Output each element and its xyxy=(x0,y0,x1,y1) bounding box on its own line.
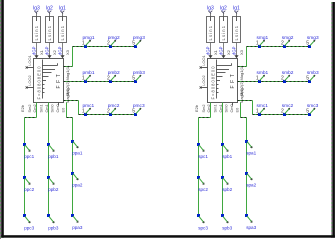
svg-text:dGP: dGP xyxy=(205,46,210,55)
svg-text:pmg1: pmg1 xyxy=(83,35,95,41)
svg-text:dGP: dGP xyxy=(44,46,49,55)
svg-text:ppc2: ppc2 xyxy=(24,187,34,192)
svg-text:1: 1 xyxy=(82,109,85,115)
node ppa2 xyxy=(71,172,83,188)
frame left border xyxy=(1,0,4,238)
svg-text:spb2: spb2 xyxy=(222,187,232,192)
node pmg3 xyxy=(132,35,145,48)
FFT block U1 xyxy=(208,59,238,103)
wire col2 xyxy=(48,103,50,217)
node ppc3 xyxy=(23,214,35,231)
svg-text:5: 5 xyxy=(132,76,135,82)
svg-text:2: 2 xyxy=(107,76,110,82)
node smg3 xyxy=(306,35,319,48)
svg-text:Sm0: Sm0 xyxy=(224,104,229,113)
svg-text:E0: E0 xyxy=(60,107,65,113)
svg-text:spc3: spc3 xyxy=(198,226,208,231)
frame right dotted guide xyxy=(331,2,333,238)
node pmc1 xyxy=(82,103,95,116)
svg-text:1: 1 xyxy=(82,76,85,82)
svg-text:5: 5 xyxy=(306,109,309,115)
node smb3 xyxy=(306,70,319,83)
pin LOO1 xyxy=(200,55,208,68)
node pmg1 xyxy=(82,35,95,48)
svg-text:lg3: lg3 xyxy=(33,6,40,12)
wire lg2 to FFT pin X2 xyxy=(44,43,57,59)
svg-text:pmc1: pmc1 xyxy=(83,103,95,109)
frame left dotted guide xyxy=(0,0,2,239)
svg-text:spa2: spa2 xyxy=(246,183,256,188)
node spc1 xyxy=(197,143,208,159)
svg-text:smb2: smb2 xyxy=(282,70,294,76)
svg-text:Cm0: Cm0 xyxy=(55,103,60,112)
svg-text:smb3: smb3 xyxy=(307,70,319,76)
bottom pins Sm/Cm xyxy=(201,103,239,113)
FFT block U1 xyxy=(34,59,64,103)
node smc2 xyxy=(281,103,293,116)
svg-text:Sm1: Sm1 xyxy=(213,105,218,113)
svg-text:E0: E0 xyxy=(234,107,239,113)
svg-text:Cm0: Cm0 xyxy=(229,103,234,112)
svg-text:lg1: lg1 xyxy=(233,6,240,12)
svg-text:FFT: FFT xyxy=(230,72,236,89)
node pmc3 xyxy=(132,103,145,116)
node spb2 xyxy=(221,176,233,192)
wire lg1 to FFT pin X3 xyxy=(57,43,70,59)
bottom pins Sm/Cm xyxy=(27,103,65,113)
svg-text:LOO2: LOO2 xyxy=(201,75,206,85)
source lg1 xyxy=(233,6,241,43)
svg-text:1: 1 xyxy=(256,41,259,47)
node pmg2 xyxy=(107,35,120,48)
wire lg3 to FFT pin X1 xyxy=(31,43,44,59)
wire lg2 to FFT pin X2 xyxy=(218,43,231,59)
node smb1 xyxy=(256,70,269,83)
wire col2 xyxy=(222,103,224,217)
svg-text:dGP: dGP xyxy=(57,46,62,55)
node ppa1 xyxy=(71,140,83,156)
svg-text:ppb2: ppb2 xyxy=(48,187,59,192)
svg-text:pmg2: pmg2 xyxy=(108,35,120,41)
svg-text:pmg3: pmg3 xyxy=(133,35,145,41)
svg-text:Lsin1: Lsin1 xyxy=(60,25,65,41)
pin LOO2 xyxy=(26,75,34,88)
wire col3 xyxy=(241,103,247,216)
svg-text:smc1: smc1 xyxy=(257,103,269,109)
wire col3 xyxy=(67,103,73,216)
svg-text:1: 1 xyxy=(82,41,85,47)
svg-text:lg1: lg1 xyxy=(59,6,66,12)
pin labels Mag1 Mag2 Mag3 xyxy=(65,65,70,103)
frame right border xyxy=(332,2,335,238)
node spc3 xyxy=(197,214,208,231)
svg-text:1: 1 xyxy=(256,109,259,115)
svg-text:E2b: E2b xyxy=(20,104,25,112)
svg-text:dGP: dGP xyxy=(231,46,236,55)
svg-text:spc1: spc1 xyxy=(198,154,208,159)
svg-text:F=80808E00: F=80808E00 xyxy=(37,65,42,99)
node ppb3 xyxy=(47,214,59,231)
wire Mag3 to row3 xyxy=(64,101,136,115)
svg-text:Sm0: Sm0 xyxy=(50,104,55,113)
svg-text:Lsin1: Lsin1 xyxy=(47,25,52,41)
svg-text:Lsin1: Lsin1 xyxy=(208,25,213,41)
svg-text:smc2: smc2 xyxy=(282,103,294,109)
svg-text:dGP: dGP xyxy=(218,46,223,55)
node pmc2 xyxy=(107,103,120,116)
node ppc2 xyxy=(23,176,35,192)
svg-text:pmb3: pmb3 xyxy=(133,70,145,76)
source lg2 xyxy=(46,6,54,43)
svg-text:5: 5 xyxy=(306,76,309,82)
svg-text:2: 2 xyxy=(281,109,284,115)
node spb1 xyxy=(221,143,233,159)
svg-text:pmb1: pmb1 xyxy=(83,70,95,76)
svg-text:Lsin1: Lsin1 xyxy=(221,25,226,41)
svg-text:ppa2: ppa2 xyxy=(72,183,83,188)
label E2b xyxy=(194,104,199,112)
svg-text:lg2: lg2 xyxy=(220,6,227,12)
svg-text:Mag1(1): Mag1(1) xyxy=(239,65,244,81)
svg-text:F=80808E00: F=80808E00 xyxy=(211,65,216,99)
svg-text:pmc2: pmc2 xyxy=(108,103,120,109)
svg-text:smc3: smc3 xyxy=(307,103,319,109)
node smb2 xyxy=(281,70,294,83)
svg-text:FFT: FFT xyxy=(56,72,62,89)
svg-text:5: 5 xyxy=(306,41,309,47)
svg-text:spc2: spc2 xyxy=(198,187,208,192)
pin labels Mag1 Mag2 Mag3 xyxy=(239,65,244,103)
svg-text:X3: X3 xyxy=(239,49,244,55)
node smg2 xyxy=(281,35,294,48)
label E2b xyxy=(20,104,25,112)
node ppc1 xyxy=(23,143,35,159)
node spb3 xyxy=(221,214,233,231)
svg-text:Lsin1: Lsin1 xyxy=(34,25,39,41)
svg-text:2: 2 xyxy=(107,109,110,115)
svg-text:LOO1: LOO1 xyxy=(201,55,206,65)
pin LOO2 xyxy=(200,75,208,88)
node pmb1 xyxy=(82,70,95,83)
svg-text:X3: X3 xyxy=(65,49,70,55)
svg-text:Lsin1: Lsin1 xyxy=(234,25,239,41)
svg-text:pmc3: pmc3 xyxy=(133,103,145,109)
source lg1 xyxy=(59,6,67,43)
svg-text:pmb2: pmb2 xyxy=(108,70,120,76)
node spa2 xyxy=(245,172,257,188)
node smg1 xyxy=(256,35,269,48)
wire Mag2 to row2 xyxy=(238,81,310,83)
node ppa3 xyxy=(71,214,83,230)
source lg3 xyxy=(33,6,41,43)
svg-text:ppb1: ppb1 xyxy=(48,154,59,159)
svg-text:spa3: spa3 xyxy=(246,225,256,230)
svg-text:ppb3: ppb3 xyxy=(48,226,59,231)
svg-text:1: 1 xyxy=(256,76,259,82)
wire Mag1 to row1 xyxy=(64,47,136,67)
wire lg3 to FFT pin X1 xyxy=(205,43,218,59)
node spa1 xyxy=(245,140,257,156)
svg-text:Mag1(1): Mag1(1) xyxy=(65,65,70,81)
node ppb2 xyxy=(47,176,59,192)
svg-text:2: 2 xyxy=(281,76,284,82)
source lg3 xyxy=(207,6,215,43)
node ppb1 xyxy=(47,143,59,159)
wire Mag2 to row2 xyxy=(64,81,136,83)
svg-text:smg2: smg2 xyxy=(282,35,294,41)
wire col1 xyxy=(25,103,37,217)
svg-text:smg3: smg3 xyxy=(307,35,319,41)
node pmb2 xyxy=(107,70,120,83)
node spa3 xyxy=(245,214,257,230)
svg-text:ppa3: ppa3 xyxy=(72,225,83,230)
svg-text:2: 2 xyxy=(107,41,110,47)
svg-text:2: 2 xyxy=(281,41,284,47)
wire Mag3 to row3 xyxy=(238,101,310,115)
svg-text:spb3: spb3 xyxy=(222,226,232,231)
frame bottom border xyxy=(1,235,335,238)
svg-text:ppc3: ppc3 xyxy=(24,226,34,231)
svg-text:5: 5 xyxy=(132,109,135,115)
svg-text:lg2: lg2 xyxy=(46,6,53,12)
svg-text:smg1: smg1 xyxy=(257,35,269,41)
node smc1 xyxy=(256,103,268,116)
wire Mag1 to row1 xyxy=(238,47,310,67)
svg-text:5: 5 xyxy=(132,41,135,47)
svg-text:LOO2: LOO2 xyxy=(27,75,32,85)
svg-text:lg3: lg3 xyxy=(207,6,214,12)
svg-text:E2b: E2b xyxy=(194,104,199,112)
wire col1 xyxy=(199,103,211,217)
svg-text:Sm1: Sm1 xyxy=(39,105,44,113)
node smc3 xyxy=(306,103,318,116)
svg-text:spa1: spa1 xyxy=(246,151,256,156)
wire lg1 to FFT pin X3 xyxy=(231,43,244,59)
source lg2 xyxy=(220,6,228,43)
svg-text:LOO1: LOO1 xyxy=(27,55,32,65)
svg-text:smb1: smb1 xyxy=(257,70,269,76)
node pmb3 xyxy=(132,70,145,83)
pin LOO1 xyxy=(26,55,34,68)
node spc2 xyxy=(197,176,208,192)
svg-text:spb1: spb1 xyxy=(222,154,232,159)
svg-text:ppc1: ppc1 xyxy=(24,154,34,159)
svg-text:dGP: dGP xyxy=(31,46,36,55)
svg-text:ppa1: ppa1 xyxy=(72,151,83,156)
